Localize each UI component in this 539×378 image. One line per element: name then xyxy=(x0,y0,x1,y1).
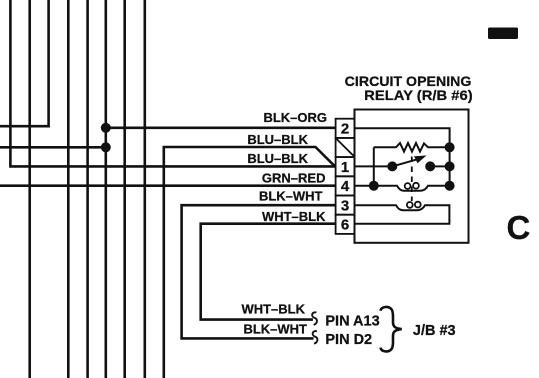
svg-text:BLK–WHT: BLK–WHT xyxy=(259,188,323,203)
svg-text:3: 3 xyxy=(341,197,349,214)
svg-text:1: 1 xyxy=(341,159,349,176)
svg-text:RELAY (R/B #6): RELAY (R/B #6) xyxy=(364,87,473,103)
svg-text:GRN–RED: GRN–RED xyxy=(262,171,326,186)
svg-text:J/B #3: J/B #3 xyxy=(413,323,456,339)
svg-text:4: 4 xyxy=(341,178,350,195)
svg-text:BLU–BLK: BLU–BLK xyxy=(247,151,308,166)
svg-text:WHT–BLK: WHT–BLK xyxy=(241,302,305,317)
svg-text:WHT–BLK: WHT–BLK xyxy=(262,209,326,224)
svg-text:BLU–BLK: BLU–BLK xyxy=(247,132,308,147)
svg-text:BLK–WHT: BLK–WHT xyxy=(243,322,307,337)
svg-text:2: 2 xyxy=(341,121,349,138)
svg-text:PIN D2: PIN D2 xyxy=(325,332,372,348)
svg-text:C: C xyxy=(507,209,531,246)
svg-text:BLK–ORG: BLK–ORG xyxy=(263,110,327,125)
svg-text:6: 6 xyxy=(341,217,349,234)
svg-text:PIN A13: PIN A13 xyxy=(325,313,379,329)
